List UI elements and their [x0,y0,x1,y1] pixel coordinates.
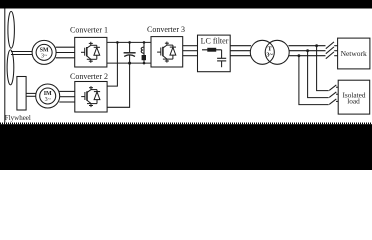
wire SM to converter1 phase a [56,46,75,48]
converter 3 box U3 [151,37,183,67]
network box [338,38,370,69]
synchronous machine SM outer circle [32,40,56,64]
svg-text:Flywheel: Flywheel [5,114,31,122]
svg-text:3~: 3~ [41,54,48,60]
chopper resistor (filled) [142,55,146,60]
switch S6 blade to isolated load [329,99,336,105]
DC bus positive (top) [107,41,151,43]
wire SM to converter1 phase c [56,57,75,59]
wire LC filter to transformer phase b [230,50,250,52]
wire conv2 lower DC link: to bottom bus junction [107,63,130,107]
IGBT/diode icon converter 1 [81,42,100,63]
LC filter inductor wire [202,49,222,51]
LC filter box [198,35,231,72]
wire conv3 to LC filter phase a [183,45,198,47]
junction dot phase b [306,49,309,52]
chopper switch hook [141,47,144,53]
capacitor C1 top plate [124,52,136,54]
IGBT/diode icon converter 3 [157,42,176,63]
wire IM to converter2 phase a [59,90,75,92]
junction dot phase a [315,44,318,47]
svg-text:Converter 1: Converter 1 [70,26,108,35]
wire IM to converter2 phase b [60,96,75,98]
drop wire phase b to isolated row2 [308,51,329,98]
LC filter cap stub [221,61,223,67]
junction dot bottom bus at chopper [143,62,146,65]
wire IM to converter2 phase c [59,101,75,103]
induction machine IM outer circle [36,84,60,108]
wire transformer to switches phase a [289,45,326,47]
DC bus negative (bottom) [107,62,151,64]
svg-text:Converter 3: Converter 3 [147,25,185,34]
junction dot phase c [298,54,301,57]
dithered top edge of bottom bar [0,122,372,124]
LC filter inductor body [207,48,216,52]
switch S2 blade to network [326,47,334,54]
drop wire phase c to isolated row3 [299,56,329,105]
turbine blade lower [7,50,14,85]
LC filter cap branch [221,50,223,58]
junction dot bottom bus at capacitor branch [128,62,131,65]
junction dot top bus at conv2 branch [116,41,119,44]
capacitor C1 vertical wire bottom [129,55,131,63]
flywheel rectangle [17,77,26,111]
converter 2 box U2 [75,82,107,113]
wire LC filter to transformer phase c [230,55,251,57]
capacitor C1 curved bottom plate [124,55,135,57]
isolated load box [338,80,370,114]
wire transformer to switches phase c [289,55,326,57]
svg-text:3~: 3~ [266,52,273,59]
junction dot top bus at capacitor [128,41,131,44]
SM inner circle [36,44,52,60]
switch S5 blade to isolated load [329,92,336,98]
shaft turbine to SM (two lines) [11,51,32,53]
junction dot top bus at chopper [143,41,146,44]
bottom letterbox bar [0,124,372,170]
svg-text:load: load [347,97,360,106]
wire conv3 to LC filter phase b [183,50,198,52]
svg-text:Converter 2: Converter 2 [70,72,108,81]
svg-text:Network: Network [341,49,367,58]
converter 1 box U1 [75,37,107,67]
drop wire phase a to isolated row1 [317,46,329,91]
shaft flywheel to IM (two lines) [26,92,36,94]
IGBT/diode icon converter 2 [81,86,100,107]
wire LC filter to transformer phase a [230,45,251,47]
svg-text:LC filter: LC filter [201,37,229,46]
switch S1 blade to network [326,42,334,49]
wire conv3 to LC filter phase c [183,55,198,57]
IM inner circle [40,88,56,104]
turbine blade upper [8,11,15,48]
svg-text:3~: 3~ [45,97,52,103]
left figure border line [4,9,6,123]
wire transformer to switches phase b [289,50,325,52]
switch S4 blade to isolated load [329,85,336,91]
chopper branch vertical wire [143,42,145,55]
transformer T secondary circle [265,40,289,64]
LC filter capacitor plates [217,57,226,59]
wire conv2 upper DC link: up to top bus [107,42,117,86]
capacitor C1 vertical wire top [129,42,131,52]
top letterbox bar [0,0,372,9]
transformer T primary circle [250,40,274,64]
switch S3 blade to network [326,52,334,59]
wire SM to converter1 phase b [56,52,75,54]
